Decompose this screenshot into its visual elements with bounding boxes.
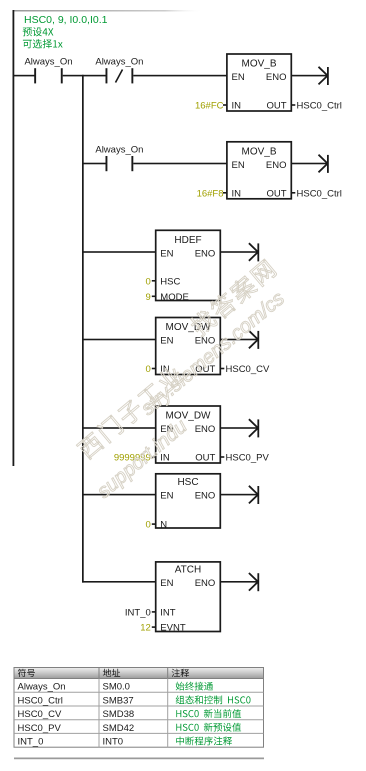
svg-text:SMD38: SMD38	[103, 709, 135, 720]
pin tick U3 MODE	[152, 296, 156, 298]
pin tick U7 INT	[152, 611, 156, 613]
svg-text:EN: EN	[160, 491, 173, 502]
wire contact2 to box U1	[133, 75, 227, 77]
wire rung1 rail to contact1	[13, 75, 35, 77]
svg-text:IN: IN	[232, 101, 242, 112]
svg-text:OUT: OUT	[266, 188, 286, 199]
svg-text:ENO: ENO	[195, 424, 216, 435]
junction branch vertical wire	[82, 75, 84, 583]
svg-text:EN: EN	[232, 160, 245, 171]
wire U1 ENO to arrow	[291, 75, 327, 77]
wire rung6 branch to box U6	[82, 494, 156, 496]
wire U4 ENO to arrow	[220, 339, 258, 341]
table header	[14, 668, 264, 679]
network separator top	[13, 10, 203, 12]
jump arrow rung5	[249, 419, 258, 437]
table body grid	[14, 679, 264, 748]
svg-text:HSC0, 9, I0.0,I0.1: HSC0, 9, I0.0,I0.1	[24, 14, 108, 26]
svg-text:HDEF: HDEF	[174, 235, 201, 246]
left power rail	[13, 10, 15, 466]
box U2 MOV_B	[227, 142, 291, 200]
jump arrow rung2	[319, 155, 328, 173]
box U1 MOV_B	[227, 54, 291, 112]
svg-text:INT_0: INT_0	[125, 607, 151, 618]
svg-text:EN: EN	[160, 248, 173, 259]
watermark tile A chinese 找答案网	[188, 258, 278, 338]
jump arrow rung6	[249, 486, 258, 504]
wire U3 ENO to arrow	[220, 251, 258, 253]
watermark tile B chinese 西门子工业找答	[75, 364, 185, 461]
svg-text:Always_On: Always_On	[18, 682, 66, 693]
pin tick U4 IN	[152, 368, 156, 370]
svg-text:IN: IN	[232, 188, 242, 199]
svg-text:9: 9	[146, 292, 151, 303]
pin tick U1 OUT	[291, 104, 295, 106]
svg-text:ENO: ENO	[195, 248, 216, 259]
svg-text:0: 0	[146, 520, 151, 531]
svg-text:Always_On: Always_On	[95, 144, 143, 155]
jump arrow rung3	[249, 243, 258, 261]
pin tick U7 EVNT	[152, 626, 156, 628]
pin tick U6 N	[152, 523, 156, 525]
wire U5 ENO to arrow	[220, 427, 258, 429]
svg-text:EN: EN	[160, 336, 173, 347]
wire rung2 branch to contact	[82, 163, 106, 165]
jump arrow rung7	[249, 573, 258, 591]
jump arrow rung4	[249, 331, 258, 349]
wire rung3 branch to box U3	[82, 251, 156, 253]
wire rung5 branch to box U5	[82, 427, 156, 429]
svg-text:ENO: ENO	[266, 72, 287, 83]
svg-text:ENO: ENO	[195, 578, 216, 589]
svg-text:EN: EN	[160, 578, 173, 589]
network comment (green)	[23, 14, 108, 48]
svg-text:MOV_B: MOV_B	[241, 59, 276, 70]
wire U2 ENO to arrow	[291, 163, 327, 165]
svg-text:SM0.0: SM0.0	[103, 682, 130, 693]
svg-text:N: N	[160, 520, 167, 531]
svg-text:SMB37: SMB37	[103, 695, 134, 706]
svg-text:MOV_B: MOV_B	[241, 146, 276, 157]
svg-text:HSC: HSC	[160, 276, 180, 287]
svg-text:ENO: ENO	[266, 160, 287, 171]
svg-text:0: 0	[146, 364, 151, 375]
pin tick U3 HSC	[152, 280, 156, 282]
svg-text:ATCH: ATCH	[175, 564, 201, 575]
pin tick U2 IN	[223, 192, 227, 194]
svg-text:Always_On: Always_On	[95, 57, 143, 68]
contact I1 Always_On (NO)	[34, 68, 63, 83]
box U4 MOV_DW	[156, 318, 221, 376]
svg-text:OUT: OUT	[266, 101, 286, 112]
box U5 MOV_DW	[156, 406, 221, 464]
svg-text:ENO: ENO	[195, 491, 216, 502]
pin tick U5 OUT	[220, 456, 224, 458]
svg-text:HSC0_PV: HSC0_PV	[18, 723, 62, 734]
svg-text:EN: EN	[232, 72, 245, 83]
svg-text:16#FC: 16#FC	[195, 101, 224, 112]
svg-text:SMD42: SMD42	[103, 723, 135, 734]
svg-text:HSC0_PV: HSC0_PV	[226, 453, 270, 464]
svg-text:HSC0_Ctrl: HSC0_Ctrl	[297, 188, 342, 199]
svg-text:INT: INT	[160, 607, 176, 618]
svg-text:Always_On: Always_On	[24, 57, 72, 68]
symbol table	[14, 668, 264, 748]
wire rung7 branch to box U7	[82, 581, 156, 583]
bottom separator	[14, 758, 264, 760]
svg-text:MODE: MODE	[160, 292, 189, 303]
jump arrow rung1	[319, 67, 328, 85]
box U7 ATCH	[156, 562, 221, 634]
pin tick U5 IN	[152, 456, 156, 458]
box U3 HDEF	[156, 230, 221, 302]
contact I3 Always_On (NO)	[106, 156, 134, 171]
svg-text:EVNT: EVNT	[160, 623, 186, 634]
svg-text:0: 0	[146, 276, 151, 287]
svg-text:HSC0_Ctrl: HSC0_Ctrl	[297, 101, 342, 112]
svg-text:INT0: INT0	[103, 737, 124, 748]
svg-text:16#F8: 16#F8	[197, 188, 224, 199]
svg-text:OUT: OUT	[195, 453, 215, 464]
pin tick U1 IN	[223, 104, 227, 106]
NC slash (contact I2)	[116, 70, 123, 83]
svg-text:HSC0_Ctrl: HSC0_Ctrl	[18, 695, 63, 706]
wire U7 ENO to arrow	[220, 581, 258, 583]
wire contact to box U2	[133, 163, 227, 165]
contact I2 Always_On (NC)	[106, 68, 134, 83]
svg-text:12: 12	[140, 623, 151, 634]
wire rung4 branch to box U4	[82, 339, 156, 341]
svg-text:INT_0: INT_0	[18, 737, 44, 748]
wire contact1 to junction to contact2	[63, 75, 106, 77]
svg-text:HSC: HSC	[177, 477, 198, 488]
svg-text:HSC0_CV: HSC0_CV	[18, 709, 62, 720]
pin tick U4 OUT	[220, 368, 224, 370]
box U6 HSC	[156, 474, 221, 531]
pin tick U2 OUT	[291, 192, 295, 194]
svg-text:HSC0_CV: HSC0_CV	[226, 364, 270, 375]
wire U6 ENO to arrow	[220, 494, 258, 496]
svg-text:MOV_DW: MOV_DW	[166, 322, 212, 333]
